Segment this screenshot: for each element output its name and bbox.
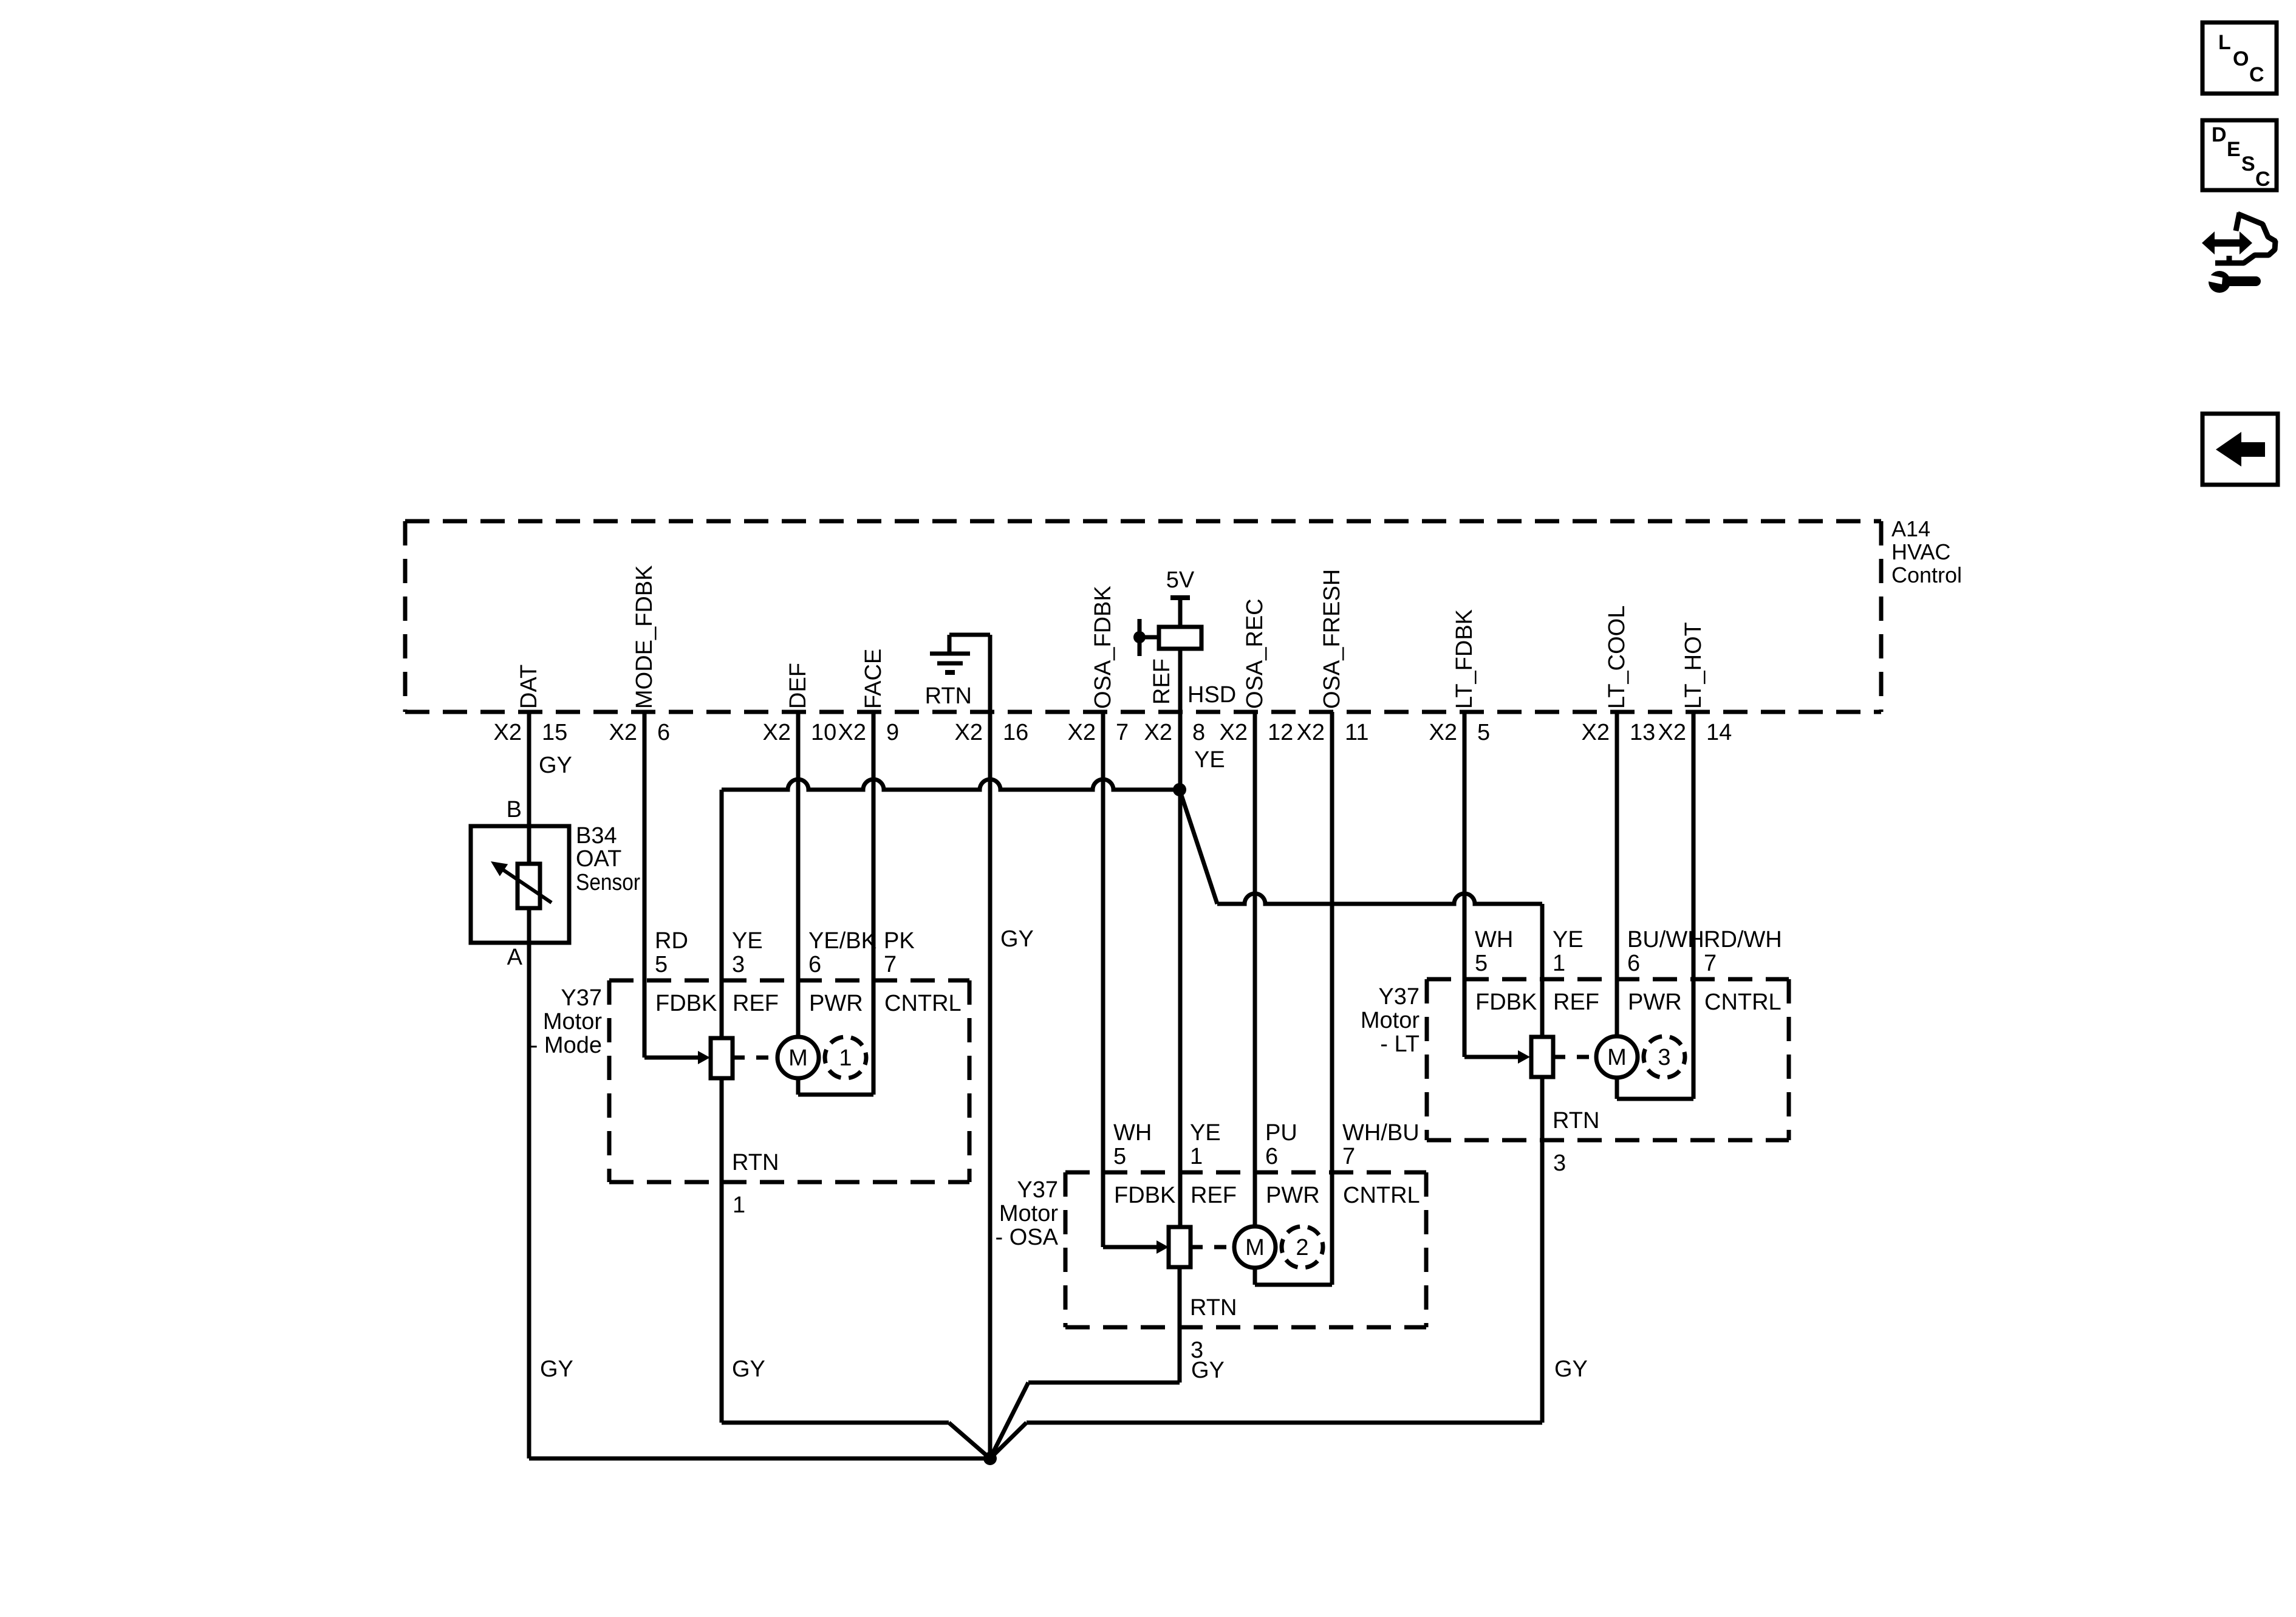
svg-text:GY: GY (1191, 1358, 1225, 1383)
svg-text:PK: PK (884, 928, 915, 954)
svg-text:6: 6 (657, 720, 670, 745)
svg-text:FDBK: FDBK (1114, 1183, 1175, 1208)
svg-text:Control: Control (1891, 562, 1962, 587)
svg-text:A: A (507, 945, 523, 970)
svg-text:FACE: FACE (861, 649, 886, 709)
svg-text:X2: X2 (1582, 720, 1610, 745)
svg-text:11: 11 (1345, 720, 1368, 745)
svg-text:X2: X2 (1220, 720, 1248, 745)
svg-text:Sensor: Sensor (576, 870, 640, 895)
svg-text:LT_HOT: LT_HOT (1681, 622, 1706, 709)
svg-text:1: 1 (1553, 951, 1565, 976)
svg-text:A14: A14 (1891, 516, 1930, 541)
svg-text:GY: GY (540, 1356, 573, 1382)
svg-text:1: 1 (733, 1192, 745, 1218)
svg-text:13: 13 (1630, 720, 1655, 745)
svg-text:RD/WH: RD/WH (1704, 927, 1782, 952)
svg-text:16: 16 (1003, 720, 1028, 745)
svg-text:WH: WH (1113, 1120, 1152, 1146)
svg-text:B34: B34 (576, 823, 617, 849)
svg-text:10: 10 (811, 720, 836, 745)
svg-text:C: C (2249, 63, 2264, 86)
svg-text:RTN: RTN (1190, 1295, 1237, 1321)
svg-text:YE: YE (1553, 927, 1584, 952)
svg-text:GY: GY (1554, 1356, 1588, 1382)
svg-text:7: 7 (1342, 1144, 1355, 1169)
svg-text:PWR: PWR (1266, 1183, 1320, 1208)
svg-text:PWR: PWR (809, 991, 863, 1016)
svg-text:5V: 5V (1166, 567, 1195, 593)
svg-text:YE/BK: YE/BK (808, 928, 876, 954)
svg-text:- OSA: - OSA (996, 1225, 1059, 1250)
svg-text:REF: REF (1553, 990, 1599, 1015)
svg-text:MODE_FDBK: MODE_FDBK (632, 566, 657, 709)
svg-text:Y37: Y37 (1378, 984, 1420, 1010)
svg-text:M: M (788, 1045, 808, 1071)
svg-text:7: 7 (1704, 951, 1717, 976)
svg-text:5: 5 (1477, 720, 1490, 745)
svg-text:PU: PU (1265, 1120, 1297, 1146)
svg-text:RTN: RTN (1553, 1108, 1599, 1133)
svg-text:X2: X2 (1144, 720, 1172, 745)
svg-text:Y37: Y37 (561, 985, 602, 1011)
svg-text:X2: X2 (1297, 720, 1325, 745)
svg-text:OSA_REC: OSA_REC (1242, 598, 1268, 709)
svg-text:LT_COOL: LT_COOL (1604, 606, 1630, 709)
svg-text:GY: GY (732, 1356, 765, 1382)
svg-text:X2: X2 (838, 720, 866, 745)
svg-text:WH: WH (1475, 927, 1513, 952)
svg-text:5: 5 (655, 952, 668, 977)
svg-text:YE: YE (732, 928, 763, 954)
svg-text:O: O (2233, 47, 2249, 70)
svg-text:E: E (2227, 138, 2241, 161)
svg-text:X2: X2 (763, 720, 791, 745)
svg-text:B: B (507, 797, 522, 822)
svg-text:1: 1 (839, 1045, 852, 1071)
svg-text:M: M (1607, 1045, 1627, 1070)
svg-text:3: 3 (1658, 1045, 1670, 1070)
svg-text:3: 3 (1553, 1150, 1566, 1176)
svg-text:CNTRL: CNTRL (884, 991, 962, 1016)
svg-text:S: S (2241, 152, 2255, 176)
svg-text:3: 3 (732, 952, 745, 977)
svg-text:HSD: HSD (1187, 682, 1236, 708)
svg-text:FDBK: FDBK (1475, 990, 1537, 1015)
svg-text:X2: X2 (955, 720, 983, 745)
svg-text:Motor: Motor (543, 1009, 602, 1034)
svg-text:1: 1 (1190, 1144, 1203, 1169)
svg-text:GY: GY (1000, 926, 1034, 952)
svg-text:2: 2 (1296, 1235, 1308, 1260)
svg-text:RTN: RTN (925, 683, 972, 709)
svg-text:LT_FDBK: LT_FDBK (1452, 609, 1477, 709)
svg-text:RTN: RTN (732, 1150, 779, 1175)
svg-text:REF: REF (733, 991, 779, 1016)
svg-text:7: 7 (1116, 720, 1129, 745)
svg-text:- Mode: - Mode (530, 1033, 602, 1058)
svg-text:5: 5 (1475, 951, 1488, 976)
svg-text:5: 5 (1113, 1144, 1126, 1169)
svg-text:RD: RD (655, 928, 688, 954)
svg-text:L: L (2218, 31, 2231, 54)
svg-text:X2: X2 (1429, 720, 1457, 745)
svg-text:Motor: Motor (1361, 1008, 1420, 1033)
svg-text:CNTRL: CNTRL (1343, 1183, 1420, 1208)
svg-text:BU/WH: BU/WH (1627, 927, 1704, 952)
svg-text:12: 12 (1268, 720, 1293, 745)
svg-text:Y37: Y37 (1017, 1177, 1058, 1203)
svg-text:X2: X2 (1068, 720, 1096, 745)
svg-text:D: D (2212, 123, 2227, 146)
svg-text:YE: YE (1194, 747, 1225, 773)
svg-text:GY: GY (539, 753, 572, 778)
svg-text:8: 8 (1192, 720, 1205, 745)
svg-text:OSA_FDBK: OSA_FDBK (1090, 586, 1116, 709)
svg-text:REF: REF (1149, 658, 1175, 705)
svg-text:15: 15 (542, 720, 567, 745)
svg-text:6: 6 (808, 952, 821, 977)
svg-text:FDBK: FDBK (655, 991, 717, 1016)
svg-text:14: 14 (1706, 720, 1732, 745)
svg-text:YE: YE (1190, 1120, 1221, 1146)
svg-text:6: 6 (1627, 951, 1640, 976)
svg-text:6: 6 (1265, 1144, 1278, 1169)
svg-text:OSA_FRESH: OSA_FRESH (1319, 569, 1345, 709)
svg-text:Motor: Motor (999, 1201, 1058, 1226)
svg-text:M: M (1245, 1235, 1265, 1260)
svg-text:WH/BU: WH/BU (1342, 1120, 1420, 1146)
svg-text:CNTRL: CNTRL (1704, 990, 1782, 1015)
svg-text:7: 7 (884, 952, 897, 977)
svg-text:REF: REF (1191, 1183, 1237, 1208)
svg-text:X2: X2 (1658, 720, 1686, 745)
svg-text:OAT: OAT (576, 846, 621, 872)
svg-text:PWR: PWR (1628, 990, 1682, 1015)
svg-text:DAT: DAT (516, 665, 542, 709)
svg-text:HVAC: HVAC (1891, 539, 1950, 564)
svg-text:X2: X2 (494, 720, 522, 745)
svg-text:- LT: - LT (1380, 1031, 1420, 1057)
svg-text:9: 9 (886, 720, 899, 745)
svg-text:DEF: DEF (785, 663, 811, 709)
svg-text:C: C (2255, 168, 2270, 191)
svg-text:X2: X2 (609, 720, 637, 745)
